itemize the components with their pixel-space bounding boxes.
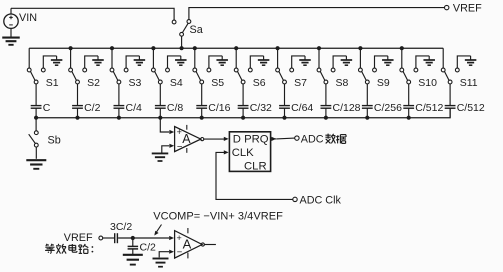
label VCOMP formula [153,210,283,222]
capacitor C/128 (cell 8) [321,106,332,118]
label 3C/2 [110,221,132,233]
svg-text:S4: S4 [170,77,183,89]
switch S7 [276,68,294,106]
glyph 效 [56,244,66,254]
ground (cell 6) [258,56,270,65]
glyph fullwidth colon [92,246,94,252]
switch S3 [110,68,128,106]
label S8 [336,77,349,89]
comparator + input arrow [169,130,174,134]
flip-flop block (D PR Q / CLK / CLR) [229,132,270,173]
node bus junction S10 [400,46,404,50]
capacitor C/512 (cell 10) [403,106,414,118]
label C/4 [126,102,143,114]
glyph 等 [45,244,55,254]
capacitor 3C/2 [115,233,118,243]
switch S2 [69,68,87,106]
svg-text:C/8: C/8 [167,102,184,114]
svg-text:C/16: C/16 [208,102,230,114]
CLK input arrow [224,150,229,154]
wire bus to S4 left throw [152,48,154,68]
terminal ADC Clk [293,197,297,201]
ground (cell 3) [134,56,146,65]
node bottom bus junction 4 [158,116,162,120]
svg-text:+: + [177,233,182,243]
svg-text:Sb: Sb [48,135,61,147]
svg-text:S6: S6 [253,77,266,89]
wire S10 right throw to ground [416,56,429,68]
op-amp + input arrow (equivalent) [169,236,174,240]
wire S1 right throw to ground [43,56,56,68]
wire S6 right throw to ground [250,56,263,68]
wire top bus [29,47,443,49]
wire Q output [271,138,276,140]
svg-text:S11: S11 [460,77,478,89]
label C [43,102,51,114]
wire bus to S2 left throw [70,48,72,68]
node bottom bus junction 10 [407,116,411,120]
wire bus to comparator + [160,118,169,132]
svg-text:C/64: C/64 [291,102,313,114]
wire bus to S1 left throw [28,48,30,68]
svg-text:C/32: C/32 [250,102,272,114]
ground (op-amp -, equivalent) [153,259,169,267]
wire VREF rail [189,8,445,20]
node bottom bus junction 1 [34,116,38,120]
ground (under Sb) [26,160,46,169]
svg-text:S10: S10 [418,77,437,89]
comparator output node [201,138,204,141]
label C/8 [167,102,184,114]
wire VIN rail [11,8,174,20]
svg-text:A: A [183,236,192,251]
wire bus to S6 left throw [235,48,237,68]
svg-text:VIN: VIN [19,12,37,24]
label S2 [87,77,100,89]
svg-text:A: A [182,132,191,146]
ground (cell 11) [465,56,477,65]
label C/2 (equivalent) [140,242,157,254]
label C/256 [374,102,402,114]
ground (cell 8) [341,56,353,65]
svg-text:VREF: VREF [453,3,482,15]
node bus junction S6 [234,46,238,50]
svg-text:C/256: C/256 [374,102,402,114]
wire bus to S8 left throw [318,48,320,68]
capacitor C/8 (cell 4) [155,106,166,118]
node bottom bus junction 9 [365,116,369,120]
label S9 [377,77,390,89]
svg-text:Sa: Sa [190,24,203,36]
node bottom bus junction 7 [282,116,286,120]
glyph 路 [79,244,89,253]
label S6 [253,77,266,89]
capacitor C/512 (cell 11) [445,106,456,118]
svg-text:S8: S8 [336,77,349,89]
D input arrow [224,137,229,141]
label C/16 [208,102,230,114]
label S3 [129,77,142,89]
svg-text:3C/2: 3C/2 [110,221,132,233]
comparator - input arrow [169,144,174,148]
switch S8 [317,68,335,106]
label VREF [453,3,482,15]
label Sb [48,135,61,147]
capacitor C/2 (cell 2) [72,106,83,118]
capacitor C/64 (cell 7) [279,106,290,118]
svg-text:C/4: C/4 [126,102,143,114]
label S11 [460,77,478,89]
wire op-amp - input (equivalent) [159,252,169,258]
wire bus to S7 left throw [277,48,279,68]
wire S8 right throw to ground [333,56,346,68]
wire S4 right throw to ground [168,56,181,68]
label C/32 [250,102,272,114]
ground (cell 9) [382,56,394,65]
ground (cell 7) [299,56,311,65]
capacitor C/256 (cell 9) [362,106,373,118]
wire bus to S11 left throw [442,48,444,68]
svg-text:C/2: C/2 [84,102,101,114]
wire bus to S5 left throw [194,48,196,68]
ground (cell 4) [175,56,187,65]
label S7 [294,77,307,89]
annotation arrow VCOMP [154,225,161,236]
ground (cell 2) [92,56,104,65]
label C/128 [333,102,361,114]
capacitor C (cell 1) [31,106,42,118]
switch S5 [193,68,211,106]
node junction (equivalent) [131,236,135,240]
node bottom bus junction 5 [200,116,204,120]
node bus junction S7 [276,46,280,50]
label C/64 [291,102,313,114]
label ADC Clk [300,195,342,207]
ground (under C/2) [123,249,143,265]
svg-text:S3: S3 [129,77,142,89]
ground (comparator -) [152,153,169,161]
wire bus to S10 left throw [401,48,403,68]
Q output arrow [271,137,276,141]
svg-text:C/2: C/2 [140,242,157,254]
label ADC (data) [301,133,324,145]
switch S10 [400,68,418,106]
terminal VREF [445,5,449,9]
node bottom bus junction 6 [241,116,245,120]
wire Q to terminal [276,137,295,140]
svg-text:S7: S7 [294,77,307,89]
svg-text:S2: S2 [87,77,100,89]
switch Sb [29,131,38,159]
wire 3C/2 to op-amp + [118,237,169,239]
wire op-amp output (equivalent) [204,244,216,246]
op-amp A (equivalent) [175,228,203,258]
node bus junction S2 [69,46,73,50]
svg-text:VCOMP= −VIN+ 3/4VREF: VCOMP= −VIN+ 3/4VREF [153,210,283,222]
label Sa [190,24,203,36]
svg-text:C/128: C/128 [333,102,361,114]
wire bottom bus [36,108,450,118]
node bus junction S8 [317,46,321,50]
label C/512 [415,102,443,114]
switch Sa [172,20,191,49]
svg-text:CLR: CLR [244,160,267,172]
wire S2 right throw to ground [85,56,98,68]
svg-text:+: + [177,127,182,137]
node bus junction S9 [358,46,362,50]
wire terminal to 3C/2 [103,237,114,239]
node bottom bus junction 2 [75,116,79,120]
capacitor C/4 (cell 3) [114,106,125,118]
svg-text:C/512: C/512 [457,102,485,114]
switch S1 [27,68,45,106]
wire bus to S9 left throw [359,48,361,68]
terminal VREF (equivalent) [99,236,103,240]
ground (under VIN) [2,28,20,45]
svg-text:C/512: C/512 [415,102,443,114]
capacitor C/32 (cell 6) [238,106,249,118]
wire S5 right throw to ground [209,56,222,68]
glyph 电 [69,244,77,252]
voltage source VIN [4,8,18,28]
wire CLK input [216,152,293,199]
node bottom bus junction 3 [117,116,121,120]
switch S4 [152,68,170,106]
op-amp A (comparator) [175,125,201,153]
ground (cell 10) [423,56,435,65]
ground (cell 5) [216,56,228,65]
label S1 [46,77,59,89]
wire bus to Sb [35,118,37,131]
wire S11 right throw to ground [457,56,470,68]
svg-text:CLK: CLK [232,147,254,159]
label S4 [170,77,183,89]
label S5 [211,77,224,89]
label VIN [19,12,37,24]
glyph 据 [336,135,346,144]
node Sa-bus junction [180,46,184,50]
op-amp output node (equivalent) [201,243,204,246]
label S10 [418,77,437,89]
svg-text:ADC Clk: ADC Clk [300,195,342,207]
ground (cell 1) [51,56,63,65]
glyph 数 [325,134,335,144]
label C/512 [457,102,485,114]
wire S3 right throw to ground [126,56,139,68]
wire S7 right throw to ground [292,56,305,68]
label VREF (equivalent) [64,232,93,244]
svg-text:S9: S9 [377,77,390,89]
wire comparator - input [162,146,169,153]
wire comparator to D [204,138,224,140]
svg-text:VREF: VREF [64,232,93,244]
capacitor C/2 (equivalent) [128,238,139,249]
op-amp - input arrow (equivalent) [169,250,174,254]
node bus junction S5 [193,46,197,50]
node bus junction S3 [110,46,114,50]
svg-text:D PRQ: D PRQ [233,134,269,146]
wire S9 right throw to ground [375,56,388,68]
svg-text:S5: S5 [211,77,224,89]
node bus junction S4 [151,46,155,50]
terminal ADC data [295,136,299,140]
capacitor C/16 (cell 5) [196,106,207,118]
switch S11 [441,68,459,106]
label C/2 [84,102,101,114]
svg-text:S1: S1 [46,77,59,89]
wire bus to S3 left throw [111,48,113,68]
svg-text:ADC: ADC [301,133,324,145]
node bottom bus junction 8 [324,116,328,120]
svg-text:C: C [43,102,51,114]
switch S9 [359,68,377,106]
switch S6 [234,68,252,106]
